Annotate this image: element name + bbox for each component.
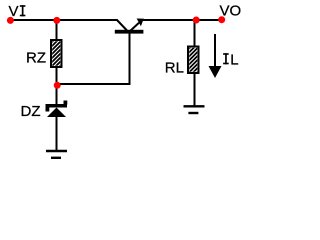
zener diode DZ <box>46 101 68 118</box>
wire right branch junction to RL top <box>194 20 196 47</box>
wire top rail right (transistor emitter to VO) <box>143 19 222 21</box>
svg-text:RZ: RZ <box>26 50 46 67</box>
wire RL bottom to ground <box>194 72 196 106</box>
node VI terminal <box>7 17 14 24</box>
node VO terminal <box>218 16 225 23</box>
node A (RZ/DZ/base junction) <box>54 82 61 89</box>
svg-text:L: L <box>230 51 238 68</box>
ground (left, below DZ) <box>46 151 67 158</box>
wire node A to DZ cathode <box>56 85 58 105</box>
wire RZ bottom to node A <box>56 66 58 85</box>
transistor Q1 <box>115 19 144 34</box>
wire left branch junction to RZ top <box>56 20 58 41</box>
resistor RZ <box>49 30 64 77</box>
wire base vertical <box>129 33 131 85</box>
svg-text:RL: RL <box>165 60 184 77</box>
label VI <box>9 3 26 20</box>
wire base horizontal (node A to base) <box>57 83 131 85</box>
resistor RL <box>186 37 201 84</box>
wire top rail left (VI to transistor collector) <box>10 19 117 21</box>
ground (right, below RL) <box>184 106 205 113</box>
svg-text:V: V <box>9 3 19 20</box>
node junction top-left <box>53 17 60 24</box>
node junction top-right <box>193 17 200 24</box>
label IL <box>223 51 239 68</box>
svg-text:DZ: DZ <box>21 103 41 120</box>
current arrow IL <box>209 34 222 78</box>
svg-text:VO: VO <box>220 3 242 20</box>
wire DZ anode to ground <box>56 116 58 151</box>
